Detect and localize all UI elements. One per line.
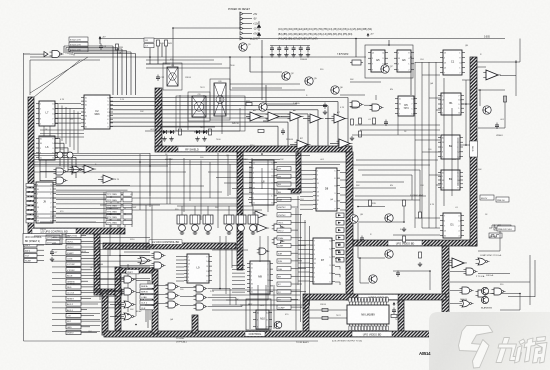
- label box PRE-DIV: [494, 225, 511, 230]
- pulse shaper Z2: [190, 213, 200, 235]
- wire bus drop 3: [67, 49, 69, 54]
- edge connector label VIDEO: [66, 330, 97, 334]
- flip-flop C8: [167, 65, 178, 86]
- wire E4 drop: [519, 294, 521, 311]
- wire q8 out v: [504, 96, 506, 128]
- wire flag to N1: [154, 285, 168, 287]
- resistor R60: [504, 96, 507, 102]
- wire D8 out 5: [340, 202, 346, 204]
- ground below C23: [291, 53, 295, 58]
- wire trellis h1: [40, 129, 84, 131]
- edge connector label RED: [66, 285, 95, 289]
- wire div link: [364, 104, 372, 106]
- junction: [359, 257, 361, 259]
- transistor Q9: [259, 103, 267, 111]
- IC F2 sync counter: [81, 95, 113, 129]
- or gate E5: [460, 300, 474, 307]
- resistor pack top pin 13: [386, 298, 388, 303]
- wire bus drop 4: [69, 51, 71, 55]
- junction: [135, 324, 137, 326]
- wire D8 in 2: [300, 174, 313, 176]
- shield bar right2 vertical: [442, 246, 449, 313]
- waveform symbol: [489, 225, 501, 228]
- wire flag out 7: [291, 252, 298, 254]
- edge connector label BLUE: [66, 273, 99, 277]
- sheet flag 10: [277, 236, 291, 240]
- wire to M2b: [110, 316, 124, 318]
- and gate E2: [464, 268, 478, 275]
- test point box B6: [123, 221, 132, 225]
- wire F2 out 3: [110, 105, 328, 107]
- wire left v2: [49, 126, 51, 136]
- wire flag out 2: [291, 214, 302, 216]
- wire q11 v: [403, 206, 405, 222]
- wire J9 drop 2: [110, 196, 112, 227]
- wire q2 base: [250, 71, 282, 73]
- wire M9 feed: [231, 250, 233, 268]
- wire L6 drop 3: [67, 148, 69, 160]
- wire F2 drop 5: [307, 114, 309, 146]
- wire div in: [350, 106, 360, 108]
- sheet flag 2: [277, 174, 291, 178]
- wire leftmesh h1: [34, 213, 120, 215]
- wire top right drop: [519, 39, 521, 63]
- wire F2 drop 8: [277, 126, 279, 146]
- wire M9 in 1: [232, 265, 245, 267]
- wire P out 3: [208, 306, 242, 308]
- wire D7 in 4: [298, 253, 310, 255]
- resistor pack top pin 10: [377, 298, 379, 303]
- sheet flag 3: [277, 182, 291, 186]
- wire E2 in: [450, 271, 466, 273]
- wire L7 to F2 2: [55, 107, 81, 109]
- wire D7 out v 1: [339, 243, 341, 246]
- resistor pack bottom pin 2: [352, 326, 354, 331]
- resistor R41: [165, 40, 173, 46]
- IC B3 latch: [438, 170, 463, 190]
- ground diode 1: [162, 137, 166, 142]
- wire flag out 13: [291, 298, 298, 300]
- nand gate K4a: [152, 252, 166, 259]
- gate A1 input nand: [50, 51, 64, 58]
- wire D8 in 1: [300, 170, 313, 172]
- wire q5 drop: [229, 57, 231, 90]
- waveform symbol 2: [489, 235, 499, 238]
- test point label TP4: [106, 209, 121, 213]
- transistor Q13: [369, 275, 377, 283]
- wire mesh v11: [119, 228, 121, 266]
- wire right bus 429: [428, 62, 430, 228]
- wire trellis v3: [65, 107, 67, 144]
- wire P drop 1: [229, 289, 231, 306]
- wire to J2: [24, 53, 31, 55]
- wire midband v5: [217, 153, 219, 228]
- wire comp row1: [477, 61, 520, 63]
- wire F2 drop 1: [347, 98, 349, 147]
- wire botcenter v1: [249, 285, 251, 329]
- wire J9 fan 4: [56, 198, 123, 200]
- sheet flag 9: [277, 228, 291, 232]
- indicator circle a: [57, 152, 63, 158]
- wire to K4a: [120, 255, 154, 257]
- flip-flop C9: [192, 94, 206, 117]
- wire rmid v2: [419, 170, 421, 212]
- wire D7 out 2: [335, 250, 340, 252]
- wire mesh v10: [109, 204, 111, 228]
- wire L6 out 5: [55, 156, 76, 158]
- capacitor C45: [384, 120, 388, 127]
- IC B2 PROM: [438, 135, 463, 159]
- wire L9 in 2: [176, 259, 184, 261]
- wire to K4b: [120, 265, 154, 267]
- sheet flag 13: [277, 259, 291, 263]
- wire to M1a: [96, 279, 124, 281]
- nand gate M1b: [122, 288, 136, 295]
- wire rmid h4: [352, 187, 396, 189]
- resistor R80: [141, 294, 144, 300]
- wire midband v3: [183, 158, 185, 212]
- ground below C21: [277, 53, 281, 58]
- resistor pack top pin 4: [358, 298, 360, 303]
- IC N8 video mixer: [347, 302, 389, 327]
- wire mesh h7: [120, 209, 262, 211]
- transistor Q7: [381, 65, 394, 73]
- shield stub L horizontal: [288, 189, 301, 193]
- UFO control note box: [23, 234, 62, 245]
- wire xbox row 2: [146, 63, 222, 65]
- wire br v1: [529, 255, 531, 305]
- wire flag bus v2: [300, 214, 302, 322]
- wire trellis v2: [61, 106, 63, 142]
- wire loop shield box relay: [176, 96, 245, 131]
- junction: [99, 38, 101, 40]
- wire 7.875MHz rail: [30, 56, 366, 58]
- connector column J9 input: [26, 184, 34, 223]
- junction: [465, 144, 467, 146]
- wire D8 in 7: [300, 195, 313, 197]
- wire br h2: [508, 296, 535, 298]
- wire rightband v3: [457, 138, 459, 186]
- wire midband v7: [251, 158, 253, 204]
- wire edge fan 16: [52, 324, 100, 326]
- wire M1b drop: [145, 293, 147, 323]
- resistor R90: [322, 309, 328, 312]
- wire M1a drop: [147, 281, 149, 329]
- wire bypass rail: [270, 45, 310, 47]
- wire to H2b: [40, 180, 56, 182]
- wire L9 in 1: [176, 256, 184, 258]
- IC L6 latch: [36, 136, 58, 160]
- wire D7 in 3: [298, 249, 310, 251]
- wire q11 out: [393, 234, 440, 236]
- label box VERT: [126, 270, 139, 274]
- wire D7 out v 3: [339, 259, 341, 262]
- ref label 010: [46, 235, 60, 239]
- wire b7 row: [266, 103, 297, 105]
- wire opamp link b: [281, 116, 290, 118]
- power input pin -12V: [240, 27, 258, 31]
- junction: [403, 221, 405, 223]
- wire D8 in 4: [300, 182, 313, 184]
- capacitor C12: [156, 75, 165, 82]
- wire F2 out 6: [110, 117, 298, 119]
- wire reset drop: [239, 12, 241, 28]
- wire F2 drop 2: [337, 102, 339, 146]
- resistor pack top pin 12: [383, 298, 385, 303]
- shield label bottom 2: [245, 332, 265, 337]
- wire osc drop 2: [157, 46, 159, 64]
- shield staircase jog: [94, 289, 122, 295]
- wire osc drop 1: [149, 46, 151, 64]
- sheet flag 15: [277, 274, 291, 278]
- diode CR4: [201, 130, 208, 134]
- wire L6 out 4: [55, 152, 72, 154]
- wire mesh v12: [109, 228, 111, 256]
- wire N to P3: [180, 305, 196, 307]
- wire edge fan 8: [52, 278, 150, 280]
- ground below C22: [284, 53, 288, 58]
- wire diode row top: [160, 126, 215, 128]
- sheet flag 16: [277, 282, 291, 286]
- wire q12 down: [359, 258, 361, 283]
- diode CR10: [257, 21, 261, 31]
- IC D7 shift register: [310, 238, 335, 284]
- oscillator loop box: [365, 45, 413, 78]
- capacitor C2: [99, 44, 107, 51]
- wire bus elbow 5: [72, 51, 131, 53]
- op-amp B8: [337, 139, 353, 148]
- diode column D7 cell: [336, 243, 344, 248]
- power input pin +5VS: [240, 32, 259, 36]
- wire D9 up: [172, 28, 174, 67]
- junction: [355, 38, 357, 40]
- wire bus vertical V2: [117, 48, 119, 96]
- wire fan drop 4: [127, 264, 129, 312]
- wire bus elbow 2: [66, 47, 118, 49]
- wire osc drop 3: [165, 46, 167, 64]
- and gate N1: [166, 283, 180, 290]
- wire center v3: [239, 236, 241, 258]
- shield label RF shield: [178, 146, 206, 151]
- edge connector label +5V: [66, 313, 94, 317]
- sheet flag 8: [277, 220, 291, 224]
- junction: [410, 56, 412, 58]
- shield label bottom: [352, 331, 392, 336]
- wire B2 right: [460, 144, 470, 146]
- junction: [249, 56, 251, 58]
- wire leftmesh h3: [40, 221, 96, 223]
- ref label 503: [69, 42, 88, 46]
- wire M9 in 2: [232, 268, 245, 270]
- wire bus drop 1: [63, 46, 65, 53]
- transistor Q10: [350, 215, 358, 223]
- shield staircase v1: [94, 234, 100, 292]
- watermark logo G glyph: [459, 326, 493, 369]
- and gate N2: [166, 292, 180, 299]
- wire loop around C9: [188, 92, 210, 121]
- wire rmid v1: [411, 175, 413, 200]
- wire L6 down: [39, 160, 41, 181]
- wire P out 1: [208, 288, 230, 290]
- power +5V arrow b: [367, 33, 374, 37]
- wire mesh h8: [110, 203, 240, 205]
- wire L9 in 6: [176, 273, 184, 275]
- nand gate E8b: [370, 104, 384, 111]
- wire q2 base drop: [249, 57, 251, 72]
- wire E1 in: [449, 262, 452, 264]
- junction: [239, 27, 241, 29]
- sheet flag 6: [277, 205, 291, 209]
- diode CR3: [194, 130, 201, 134]
- diode CR1: [161, 130, 168, 134]
- ref label 501: [69, 47, 88, 51]
- wire edge fan 9: [52, 284, 120, 286]
- wire Q7 base: [350, 81, 381, 83]
- IC D1 PROM: [440, 213, 464, 238]
- wire D7 out v 5: [339, 274, 341, 277]
- wire b7 drop: [265, 85, 267, 104]
- wire q12 out: [393, 270, 430, 272]
- wire flag to N3: [154, 303, 168, 305]
- wire N to P1: [180, 287, 196, 289]
- wire L6 out 2: [55, 142, 64, 144]
- wire loop around D9: [210, 79, 230, 120]
- op-amp A5b: [266, 112, 282, 121]
- resistor pack bottom pin 13: [386, 326, 388, 331]
- wire M9 in 6: [232, 284, 245, 286]
- wire F2 out 7: [110, 121, 288, 123]
- wire left v1: [45, 160, 47, 178]
- wire bell feed 5: [240, 206, 242, 213]
- wire osc to B1: [410, 57, 412, 95]
- op-amp A5a: [248, 109, 264, 121]
- flip-flop D9: [214, 81, 226, 116]
- wire div out: [352, 134, 440, 136]
- edge connector label RESET: [66, 296, 91, 300]
- oscillator divider Q3: [368, 50, 388, 72]
- shield box N8 left vertical: [303, 300, 309, 333]
- capacitor C60: [392, 308, 396, 315]
- wire M9 in 4: [232, 276, 245, 278]
- wire N to P2: [180, 296, 196, 298]
- wire diag topleft: [30, 57, 88, 93]
- wire bus drop 5: [71, 52, 73, 55]
- resistor R22: [246, 101, 252, 106]
- wire edge fan 17: [52, 330, 100, 332]
- wire bus drop 6: [73, 54, 75, 56]
- wire center h1: [226, 299, 268, 301]
- wire bus vertical V4: [126, 51, 128, 96]
- wire F2 drop 7: [287, 122, 289, 146]
- wire rmid h1: [358, 169, 420, 171]
- power input pin +5V: [240, 12, 258, 16]
- wire mesh h4: [34, 185, 204, 187]
- bypass capacitor C24: [299, 46, 303, 53]
- wire xbox drop 4: [221, 95, 223, 134]
- wire J9 drop 3: [117, 200, 119, 227]
- ground C4: [50, 257, 54, 262]
- shield label video circuit: [358, 294, 398, 299]
- wire D8 in 8: [300, 200, 313, 202]
- wire q12 in: [358, 257, 385, 259]
- wire H2a out: [68, 169, 84, 171]
- diode CR2: [168, 130, 175, 134]
- wire E2 out: [478, 273, 510, 275]
- wire midband v2: [166, 156, 168, 205]
- wire F2 drop 6: [297, 118, 299, 146]
- wire edge fan 3: [52, 248, 150, 250]
- wire opamp link a: [263, 120, 268, 122]
- shield label on right bar: [470, 141, 478, 157]
- wire to H2a: [40, 171, 56, 173]
- resistor R71: [403, 200, 406, 206]
- resistor pack top pin 9: [374, 298, 376, 303]
- wire right link 10: [422, 227, 440, 229]
- wire mesh h6: [34, 197, 240, 199]
- wire L9 in 5: [176, 270, 184, 272]
- wire bell feed 1: [181, 206, 183, 213]
- sheet flag 18: [277, 297, 291, 301]
- wire rightband v2: [451, 108, 453, 196]
- wire L6 drop2 4: [71, 160, 73, 175]
- nand gate H2a: [54, 168, 68, 175]
- resistor R91: [322, 317, 328, 320]
- wire q10-q11: [358, 206, 385, 208]
- wire leftmesh h6: [124, 251, 150, 253]
- shield bar control horizontal: [103, 243, 236, 249]
- wire xtal drop: [161, 44, 163, 57]
- signal flag S3: [140, 295, 154, 299]
- diode column D7 cell: [336, 220, 344, 225]
- wire trellis v4: [69, 109, 71, 148]
- wire topleft v: [29, 60, 31, 95]
- capacitor C51: [396, 271, 400, 278]
- wire rmid h3: [356, 181, 404, 183]
- aux connector label A1: [24, 243, 44, 247]
- wire D8 out 6: [340, 209, 346, 211]
- transistor Q15: [274, 321, 282, 329]
- wire leftmesh v2: [151, 205, 153, 246]
- wire D7 in 7: [298, 267, 310, 269]
- wire osc row2: [340, 94, 365, 96]
- junction: [119, 255, 121, 257]
- wire N8 left2: [309, 317, 347, 319]
- wire F2 out 8: [110, 125, 278, 127]
- wire edge fan 1: [52, 237, 150, 239]
- aux connector label A2: [24, 248, 44, 252]
- wire bus vertical V3: [121, 49, 123, 95]
- wire cluster v: [499, 231, 501, 251]
- junction: [479, 89, 481, 91]
- wire center v5: [267, 236, 269, 300]
- edge connector label CLOCK: [66, 291, 102, 295]
- wire F2 out 1: [110, 97, 348, 99]
- nand gate H2b: [54, 177, 68, 184]
- wire br v2: [534, 260, 536, 297]
- IC D8 shift register: [313, 168, 340, 211]
- capacitor C4 4.7MFD: [50, 250, 58, 257]
- bypass capacitor C25: [306, 46, 310, 53]
- edge connector label GREEN: [66, 279, 88, 283]
- wire q5 row: [230, 89, 305, 91]
- crystal Y1: [350, 60, 363, 65]
- wire M9 in 7: [232, 287, 245, 289]
- ground opamp b: [323, 110, 327, 115]
- wire L6 drop 2: [63, 143, 65, 160]
- wire D7 in 5: [298, 258, 310, 260]
- wire right link 7: [429, 174, 440, 176]
- wire comp drop: [515, 60, 517, 96]
